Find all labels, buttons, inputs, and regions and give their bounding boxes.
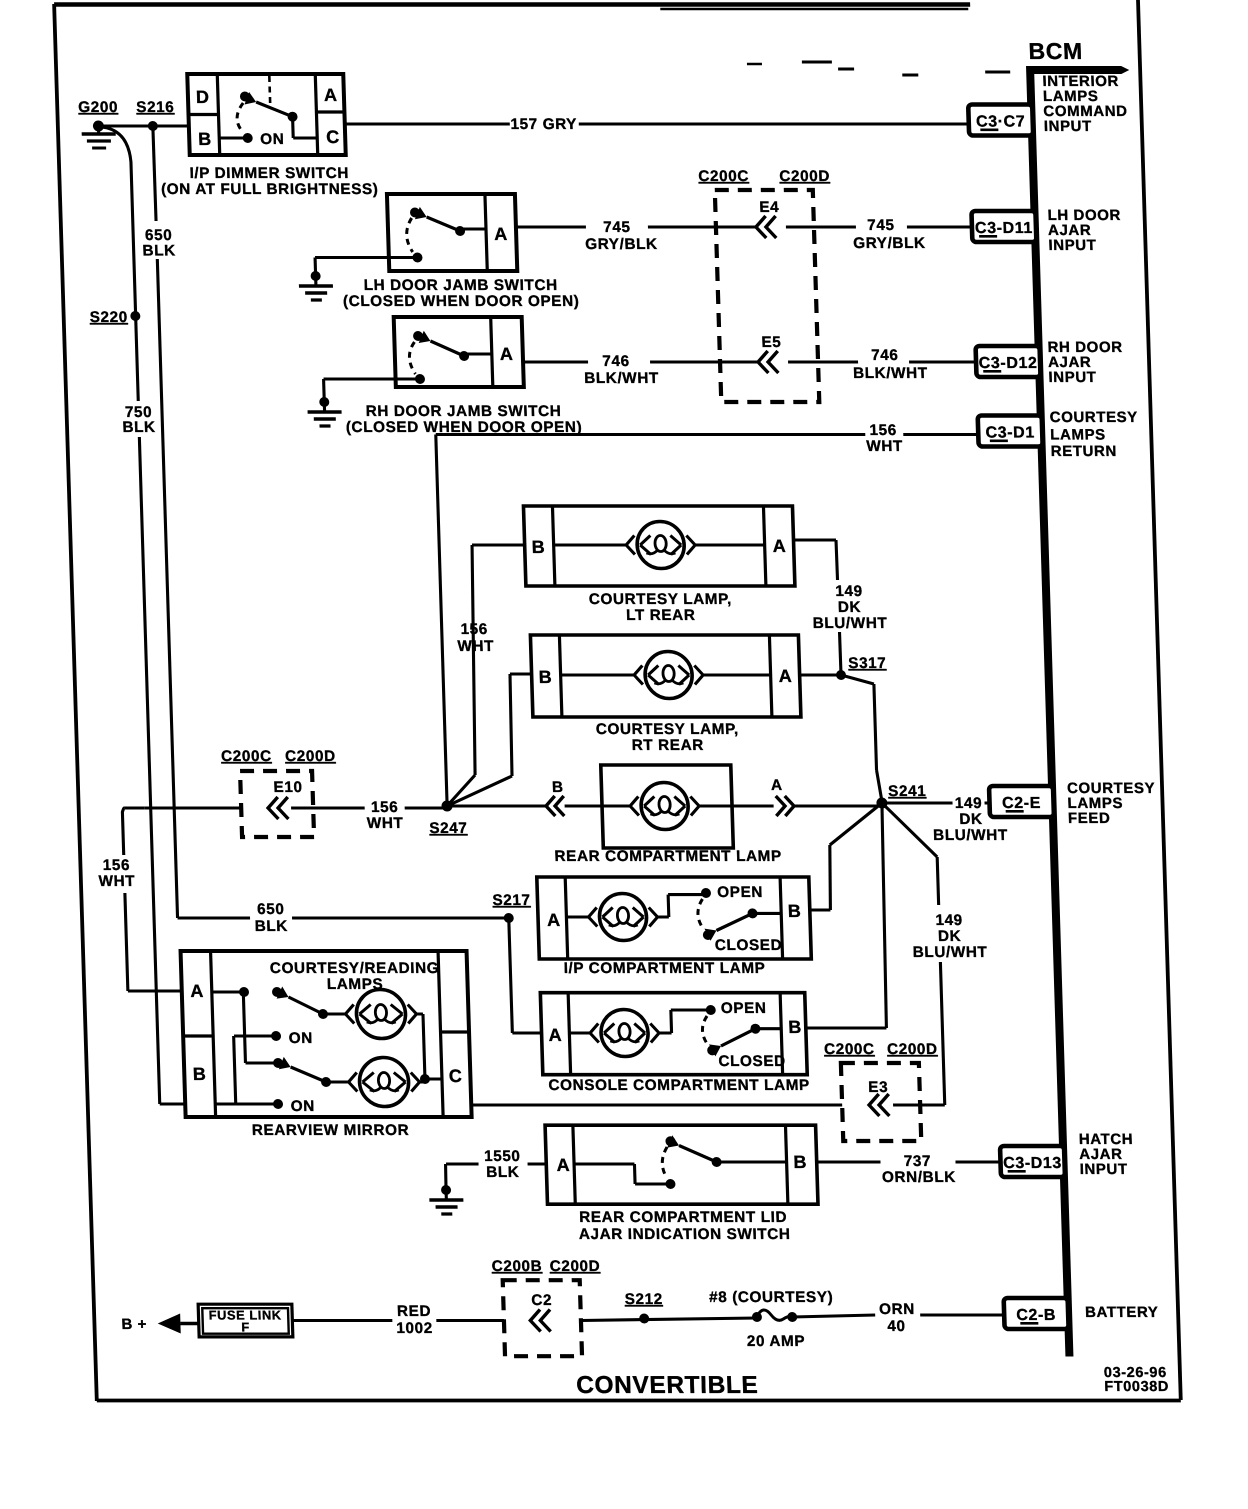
courtesy lamp RT rear [530, 635, 801, 717]
svg-text:E4: E4 [759, 199, 779, 216]
svg-text:CONVERTIBLE: CONVERTIBLE [576, 1372, 759, 1399]
svg-text:C: C [326, 127, 340, 147]
svg-text:BATTERY: BATTERY [1085, 1304, 1159, 1321]
svg-text:RETURN: RETURN [1051, 443, 1118, 460]
console compartment lamp [540, 993, 807, 1075]
svg-text:INPUT: INPUT [1048, 237, 1097, 254]
wire 149 DK BLU/WHT S241 down to E3 [882, 803, 945, 1105]
BCM label HATCH AJAR INPUT [1079, 1131, 1135, 1178]
svg-text:BCM: BCM [1028, 38, 1083, 64]
wire S247 to LT rear pin B (156 WHT riser) [439, 545, 533, 806]
svg-text:FT0038D: FT0038D [1104, 1379, 1169, 1395]
inline connector C200C/C200D pass-through E3 [824, 1041, 941, 1141]
svg-text:BLK: BLK [486, 1164, 520, 1181]
svg-text:A: A [547, 910, 561, 930]
svg-text:COURTESY LAMP,: COURTESY LAMP, [589, 591, 732, 608]
svg-text:B: B [198, 129, 212, 149]
rear compartment lamp [601, 765, 734, 848]
wire G200 to dimmer switch B pin [98, 124, 188, 127]
svg-text:C2-B: C2-B [1016, 1307, 1056, 1324]
connector pin C3-D12 [976, 346, 1041, 377]
svg-text:C200D: C200D [549, 1258, 600, 1275]
label 745 GRY/BLK left [584, 219, 658, 253]
svg-text:B: B [193, 1064, 207, 1084]
svg-text:E5: E5 [761, 334, 781, 351]
label CONSOLE COMPARTMENT LAMP [548, 1077, 810, 1094]
svg-text:1002: 1002 [396, 1320, 433, 1337]
label 157 GRY [510, 116, 577, 133]
ground at RH door jamb switch [307, 397, 342, 426]
svg-text:S216: S216 [136, 99, 175, 116]
svg-text:S217: S217 [492, 892, 531, 909]
wire 156 WHT into rearview mirror pin A [128, 989, 182, 992]
splice S216 [136, 99, 175, 131]
BCM label RH DOOR AJAR INPUT [1047, 339, 1123, 386]
svg-text:B: B [788, 1017, 802, 1037]
arrow to B+ [157, 1314, 199, 1334]
wire 157 GRY dimmer pin C to C3-C7 [345, 122, 969, 125]
wire 156 WHT from left riser east to S247 via E10 [122, 808, 452, 991]
svg-text:746: 746 [602, 353, 630, 370]
svg-text:OPEN: OPEN [721, 1000, 767, 1017]
svg-text:ON: ON [260, 131, 285, 148]
wire S217 down to console lamp pin A [509, 918, 542, 1033]
svg-text:149: 149 [835, 583, 863, 600]
svg-text:COURTESY/READING: COURTESY/READING [270, 960, 440, 977]
svg-text:737: 737 [904, 1153, 932, 1170]
label 149 DK BLU/WHT lower [912, 912, 988, 961]
wire LH jamb switch to ground [315, 258, 418, 275]
wire I/P lamp pin B up to S241 [807, 803, 886, 910]
svg-text:C200C: C200C [698, 168, 749, 185]
wire 156 WHT S247 east to rear compartment lamp pin B chevron [447, 804, 546, 807]
svg-text:WHT: WHT [367, 815, 404, 832]
inline connector C200C/C200D pass-through E10 [221, 748, 338, 837]
label 745 GRY/BLK right [852, 217, 926, 252]
svg-text:149: 149 [935, 912, 963, 929]
pin A chevron of rear compartment lamp [731, 777, 882, 816]
label 149 DK BLU/WHT at C2-E [932, 795, 1008, 844]
connector pin C3-D1 [978, 416, 1043, 447]
wire 746 BLK/WHT RH jamb pin A to C3-D12 via E5 [523, 360, 976, 363]
svg-text:WHT: WHT [457, 638, 494, 655]
label 650 BLK lower [254, 901, 288, 935]
svg-text:650: 650 [145, 227, 173, 244]
label REAR COMPARTMENT LID AJAR INDICATION SWITCH [578, 1209, 791, 1243]
svg-text:A: A [778, 666, 792, 686]
svg-text:A: A [190, 981, 204, 1001]
svg-text:C200C: C200C [824, 1041, 875, 1058]
svg-text:650: 650 [257, 901, 285, 918]
svg-text:C2-E: C2-E [1002, 795, 1041, 812]
svg-text:C200C: C200C [221, 748, 272, 765]
svg-text:DK: DK [938, 928, 962, 945]
svg-text:INPUT: INPUT [1079, 1161, 1128, 1178]
svg-text:BLK/WHT: BLK/WHT [853, 365, 928, 382]
svg-text:ORN/BLK: ORN/BLK [882, 1169, 956, 1186]
label ORN 40 [879, 1301, 916, 1335]
svg-text:DK: DK [838, 599, 862, 616]
label 1550 BLK [484, 1148, 521, 1181]
BCM label INTERIOR LAMPS COMMAND INPUT [1042, 73, 1128, 135]
mirror internal lamp 1 ON contact [234, 1030, 313, 1047]
splice S247 [428, 801, 467, 837]
label COURTESY LAMP RT REAR [596, 721, 740, 754]
label REAR COMPARTMENT LAMP [554, 848, 782, 865]
svg-text:156: 156 [869, 422, 897, 439]
svg-text:C3-D11: C3-D11 [975, 220, 1033, 237]
scan smudge marks [747, 62, 1010, 75]
svg-text:S212: S212 [624, 1291, 663, 1308]
svg-text:B: B [793, 1152, 807, 1172]
LH door jamb switch [387, 194, 517, 271]
svg-text:C200B: C200B [491, 1258, 542, 1275]
svg-text:157 GRY: 157 GRY [510, 116, 577, 133]
svg-text:C3·C7: C3·C7 [976, 113, 1026, 130]
courtesy lamp LT rear [523, 506, 794, 586]
svg-text:COURTESY: COURTESY [1049, 409, 1138, 426]
label 156 WHT mid [366, 799, 404, 832]
svg-text:B: B [552, 779, 564, 796]
svg-text:156: 156 [103, 857, 131, 874]
wire 750 BLK from G200 down to rearview mirror pin B [102, 127, 185, 1104]
label 750 BLK [122, 404, 156, 436]
mirror pin B wire [215, 1102, 235, 1105]
date stamp 03-26-96 FT0038D [1104, 1365, 1170, 1395]
svg-text:AJAR INDICATION SWITCH: AJAR INDICATION SWITCH [579, 1226, 791, 1243]
svg-text:I/P DIMMER SWITCH: I/P DIMMER SWITCH [189, 165, 349, 182]
rear compartment lid ajar indication switch [545, 1125, 818, 1204]
connector pin C2-E [989, 786, 1054, 817]
svg-text:CLOSED: CLOSED [718, 1053, 786, 1070]
svg-text:C3-D12: C3-D12 [978, 355, 1037, 372]
fuse #8 COURTESY 20 AMP [709, 1289, 835, 1350]
connector pin C3-D11 [971, 211, 1036, 242]
svg-text:E10: E10 [273, 779, 303, 796]
splice S217 [492, 892, 531, 923]
RH door jamb switch [394, 317, 524, 387]
BCM label BATTERY [1085, 1304, 1159, 1321]
svg-text:BLK/WHT: BLK/WHT [584, 370, 659, 387]
wire 745 GRY/BLK LH jamb pin A to C3-D11 via E4 [516, 225, 972, 228]
wire LT rear pin A to S317 (149 DK BLU/WHT) [793, 540, 841, 675]
label RED 1002 [396, 1303, 433, 1337]
svg-text:LAMPS: LAMPS [327, 976, 384, 993]
svg-text:C3-D13: C3-D13 [1003, 1155, 1062, 1172]
svg-text:149: 149 [955, 795, 983, 812]
svg-text:LH DOOR JAMB SWITCH: LH DOOR JAMB SWITCH [363, 277, 558, 294]
mirror internal lamp 2 ON contact [233, 1036, 315, 1115]
svg-text:156: 156 [460, 621, 488, 638]
svg-text:CONSOLE COMPARTMENT LAMP: CONSOLE COMPARTMENT LAMP [548, 1077, 810, 1094]
wire RH jamb switch to ground [324, 379, 421, 400]
wire S247 to RT rear pin B [443, 674, 536, 806]
label 746 BLK/WHT left [583, 353, 659, 387]
svg-text:156: 156 [371, 799, 399, 816]
svg-text:S220: S220 [89, 309, 128, 326]
svg-text:C200D: C200D [887, 1041, 938, 1058]
wire 149 DK BLU/WHT S241 to C2-E [882, 801, 990, 804]
svg-text:C200D: C200D [285, 748, 336, 765]
splice S220 [89, 309, 140, 326]
label COURTESY LAMP LT REAR [589, 591, 733, 624]
ground G200 [78, 99, 119, 148]
svg-text:F: F [241, 1320, 250, 1335]
wire 650 BLK from S216 down and east to S217 [153, 126, 509, 918]
svg-text:GRY/BLK: GRY/BLK [853, 235, 926, 252]
svg-text:RH DOOR JAMB SWITCH: RH DOOR JAMB SWITCH [365, 403, 561, 420]
label 156 WHT left [98, 857, 136, 890]
svg-text:A: A [548, 1025, 562, 1045]
I/P compartment lamp [537, 877, 812, 959]
svg-text:B: B [788, 901, 802, 921]
label 156 WHT at C3-D1 [866, 422, 904, 455]
svg-text:B +: B + [121, 1316, 147, 1333]
ground at rear compartment lid switch [429, 1185, 464, 1214]
svg-text:BLU/WHT: BLU/WHT [912, 944, 987, 961]
svg-text:BLK: BLK [122, 419, 156, 436]
wire 737 ORN/BLK lid switch pin B to C3-D13 [817, 1160, 1001, 1163]
svg-text:B: B [531, 537, 545, 557]
fuse link F [198, 1304, 293, 1337]
svg-text:#8 (COURTESY): #8 (COURTESY) [709, 1289, 834, 1306]
label LH DOOR JAMB SWITCH (CLOSED WHEN DOOR OPEN) [342, 277, 579, 310]
BCM label COURTESY LAMPS RETURN [1049, 409, 1139, 460]
svg-text:20 AMP: 20 AMP [747, 1333, 806, 1350]
svg-text:CLOSED: CLOSED [715, 937, 783, 954]
label RH DOOR JAMB SWITCH (CLOSED WHEN DOOR OPEN) [345, 403, 582, 436]
node B+ [121, 1316, 147, 1333]
wire 156 WHT from S247 up to courtesy lamps return C3-D1 [436, 435, 990, 807]
svg-text:REAR COMPARTMENT LID: REAR COMPARTMENT LID [579, 1209, 788, 1226]
svg-text:COURTESY LAMP,: COURTESY LAMP, [596, 721, 739, 738]
svg-text:ON: ON [288, 1030, 313, 1047]
label REARVIEW MIRROR [252, 1122, 410, 1139]
svg-text:GRY/BLK: GRY/BLK [585, 236, 658, 253]
svg-text:BLK: BLK [142, 243, 176, 260]
svg-text:OPEN: OPEN [717, 884, 763, 901]
svg-text:40: 40 [887, 1318, 906, 1335]
caption CONVERTIBLE [576, 1372, 759, 1399]
label I/P DIMMER SWITCH (ON AT FULL BRIGHTNESS) [160, 165, 378, 198]
svg-text:ORN: ORN [879, 1301, 915, 1318]
inline connector C200B/C200D pass-through C2 [491, 1258, 603, 1356]
I/P dimmer switch [187, 74, 345, 155]
splice S212 [624, 1291, 663, 1323]
svg-text:C2: C2 [531, 1292, 552, 1309]
BCM module bar [1026, 38, 1168, 1356]
label COURTESY/READING LAMPS [270, 960, 440, 993]
svg-text:ON: ON [291, 1098, 316, 1115]
mirror internal lamp 2 switch [243, 992, 425, 1107]
svg-text:BLU/WHT: BLU/WHT [933, 827, 1008, 844]
svg-text:A: A [500, 344, 514, 364]
svg-text:RT REAR: RT REAR [631, 737, 704, 754]
svg-text:(ON AT FULL BRIGHTNESS): (ON AT FULL BRIGHTNESS) [161, 181, 379, 198]
label I/P COMPARTMENT LAMP [563, 960, 765, 977]
wire RED 1002 fuse link to C2 [292, 1319, 504, 1322]
svg-text:BLK: BLK [254, 918, 288, 935]
pin B chevron of rear compartment lamp [545, 779, 602, 816]
wire console lamp pin B up to S241 [799, 803, 889, 1028]
mirror internal lamp 1 switch [212, 987, 424, 1039]
splice S241 [876, 783, 927, 808]
svg-text:DK: DK [959, 811, 983, 828]
svg-text:A: A [771, 777, 783, 794]
label 746 BLK/WHT right [852, 347, 928, 382]
splice S317 [835, 655, 886, 680]
svg-text:WHT: WHT [98, 873, 135, 890]
svg-text:E3: E3 [868, 1079, 888, 1096]
svg-text:INPUT: INPUT [1044, 118, 1093, 135]
svg-text:I/P COMPARTMENT LAMP: I/P COMPARTMENT LAMP [563, 960, 765, 977]
wire C2 to S212 to fuse [581, 1318, 757, 1321]
svg-text:745: 745 [867, 217, 895, 234]
svg-text:S247: S247 [429, 820, 468, 837]
label 149 DK BLU/WHT upper [811, 583, 887, 632]
svg-text:REAR COMPARTMENT LAMP: REAR COMPARTMENT LAMP [554, 848, 782, 865]
wire RT rear pin A through S317 down to S241 [800, 675, 882, 801]
svg-text:REARVIEW MIRROR: REARVIEW MIRROR [252, 1122, 410, 1139]
svg-text:RED: RED [397, 1303, 432, 1320]
svg-text:A: A [494, 224, 508, 244]
svg-text:C: C [449, 1066, 463, 1086]
svg-text:S317: S317 [848, 655, 887, 672]
label 156 WHT riser [457, 621, 495, 655]
svg-text:INPUT: INPUT [1048, 369, 1097, 386]
connector pin C3-D13 [1000, 1146, 1065, 1177]
wire 1550 BLK ground to lid switch pin A [445, 1164, 547, 1188]
connector pin C3-C7 [968, 105, 1033, 136]
label 737 ORN/BLK [881, 1153, 956, 1186]
svg-text:A: A [324, 85, 338, 105]
svg-text:C3-D1: C3-D1 [985, 424, 1035, 441]
svg-text:G200: G200 [78, 99, 118, 116]
mirror internal wire to pin C [418, 1014, 442, 1084]
rearview mirror courtesy/reading lamps [181, 951, 472, 1117]
svg-text:C200D: C200D [779, 168, 830, 185]
connector pin C2-B [1004, 1298, 1069, 1329]
svg-text:S241: S241 [888, 783, 927, 800]
wire rearview mirror pin C east to E3 [471, 1103, 920, 1106]
svg-text:746: 746 [871, 347, 899, 364]
svg-text:A: A [556, 1155, 570, 1175]
svg-text:WHT: WHT [866, 438, 903, 455]
svg-text:745: 745 [603, 219, 631, 236]
svg-text:(CLOSED WHEN DOOR OPEN): (CLOSED WHEN DOOR OPEN) [343, 293, 580, 310]
svg-text:A: A [772, 536, 786, 556]
BCM label LH DOOR AJAR INPUT [1047, 207, 1122, 254]
svg-text:LT REAR: LT REAR [626, 607, 696, 624]
svg-text:B: B [538, 667, 552, 687]
wire ORN 40 fuse to C2-B [792, 1315, 1004, 1317]
inline connector C200C/C200D pass-through E4 E5 [698, 168, 837, 402]
svg-text:FEED: FEED [1068, 810, 1111, 827]
svg-text:1550: 1550 [484, 1148, 521, 1165]
svg-text:LAMPS: LAMPS [1050, 427, 1106, 444]
svg-text:BLU/WHT: BLU/WHT [812, 615, 887, 632]
BCM label COURTESY LAMPS FEED [1067, 780, 1157, 827]
label 650 BLK upper [142, 227, 176, 259]
ground at LH door jamb switch [298, 271, 333, 300]
svg-text:D: D [196, 87, 210, 107]
